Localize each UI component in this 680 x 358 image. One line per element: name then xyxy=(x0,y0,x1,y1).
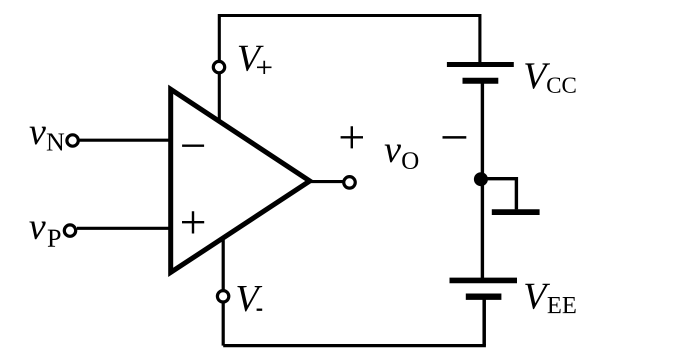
terminal V- xyxy=(217,291,228,302)
wire vN to op-amp xyxy=(80,139,172,142)
plus sign (non-inverting input) xyxy=(182,211,204,233)
wire VEE to bottom rail xyxy=(482,299,486,346)
wire node to VEE xyxy=(481,179,484,278)
wire VCC to node xyxy=(481,83,484,180)
wire V+ stub upper xyxy=(218,14,221,61)
op-amp U1 xyxy=(171,89,310,272)
battery VCC plate short xyxy=(463,78,499,84)
wire bottom rail xyxy=(223,344,486,347)
battery VEE plate short xyxy=(466,294,502,300)
minus sign (output polarity) xyxy=(443,136,467,139)
wire vP to op-amp xyxy=(77,227,171,230)
battery VEE plate long xyxy=(450,278,518,284)
plus sign (output polarity) xyxy=(341,126,363,148)
wire node to ground xyxy=(481,179,516,210)
terminal vP xyxy=(64,225,75,236)
node junction xyxy=(474,172,488,186)
subscript minus of V- xyxy=(257,309,263,311)
wire op-amp output xyxy=(311,180,344,183)
label vO xyxy=(385,145,419,169)
label V+ xyxy=(239,46,264,71)
subscript plus of V+ xyxy=(257,61,272,74)
minus sign (inverting input) xyxy=(182,144,204,146)
terminal vN xyxy=(67,135,78,146)
label VCC xyxy=(525,63,575,93)
wire right rail upper xyxy=(478,14,481,63)
label VEE xyxy=(525,284,575,313)
wire V- stub upper xyxy=(222,238,225,290)
terminal V+ xyxy=(213,61,224,72)
wire top rail xyxy=(219,14,480,17)
label vP xyxy=(29,221,60,246)
label V- xyxy=(237,286,262,311)
battery VCC plate long xyxy=(447,62,514,67)
wire V- stub lower xyxy=(222,303,225,346)
label vN xyxy=(30,127,65,151)
ground xyxy=(492,209,540,215)
terminal output xyxy=(344,177,356,189)
wire V+ stub lower xyxy=(218,74,221,123)
